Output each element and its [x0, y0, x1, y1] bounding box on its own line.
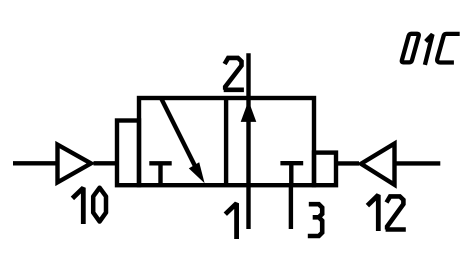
label 10 (pilot port 10)	[72, 188, 83, 224]
wire right triangle to end	[395, 161, 441, 165]
label 3 (port 3)	[308, 204, 322, 236]
port 3 line	[289, 185, 293, 229]
pilot box right	[314, 153, 336, 186]
valve body (two chambers)	[139, 98, 314, 185]
flow arrow head right chamber (up)	[241, 101, 257, 122]
blocked port T right chamber	[280, 163, 303, 185]
pilot triangle left (pneumatic pilot 10)	[58, 145, 92, 183]
port 2/1 vertical line	[246, 53, 250, 229]
flow arrow left chamber (diagonal)	[161, 98, 197, 170]
blocked port T left chamber	[149, 163, 171, 185]
wire body to right triangle apex	[336, 161, 359, 165]
pilot triangle right (pneumatic pilot 12)	[361, 144, 395, 185]
wire left supply to pilot triangle	[13, 161, 56, 165]
chamber divider	[224, 98, 228, 185]
label 1 (port 1)	[225, 203, 236, 239]
label 01C (component designator)	[402, 34, 419, 63]
label 12 (pilot port 12)	[367, 195, 378, 231]
wire triangle apex to pilot box	[94, 161, 120, 165]
label 2 (port 2)	[224, 58, 244, 90]
flow arrow head (diagonal)	[189, 162, 205, 183]
pilot box left	[117, 121, 139, 186]
